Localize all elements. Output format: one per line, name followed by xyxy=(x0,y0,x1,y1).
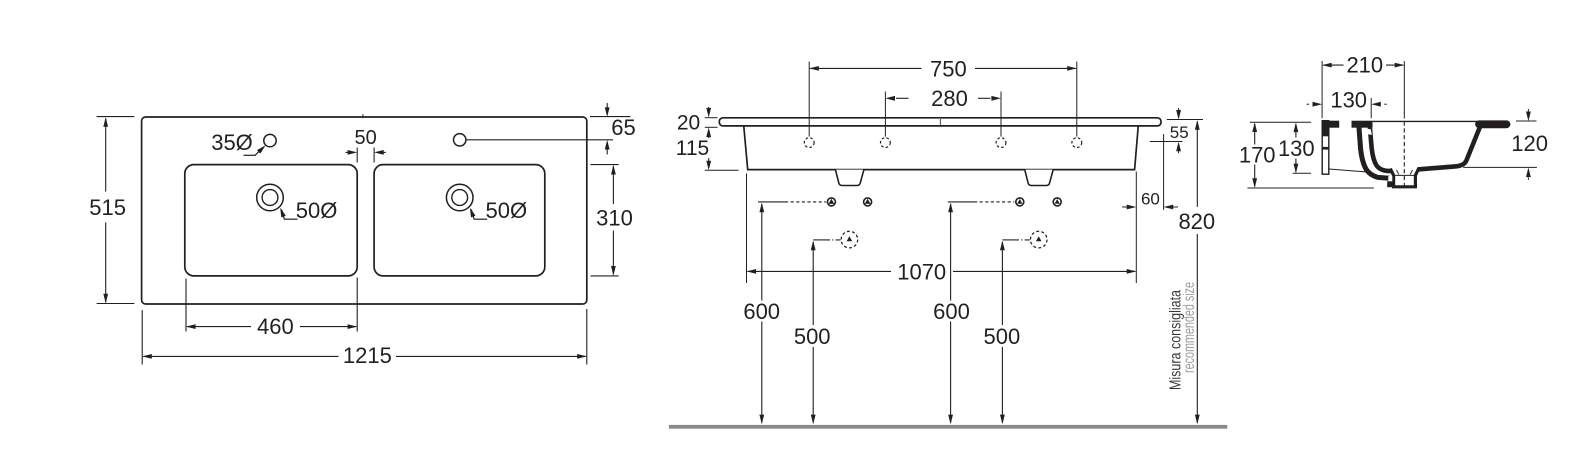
dimension 120: top reference line xyxy=(1516,120,1537,122)
svg-text:55: 55 xyxy=(1170,123,1189,142)
fixing hole symbol A4 xyxy=(1053,198,1061,206)
section: overflow channel outlet (white notch) xyxy=(1388,176,1392,181)
plan view: right overflow hole 50mm outer xyxy=(446,184,473,211)
section: overflow slot (white) in inner wall xyxy=(1367,129,1372,135)
plan view: counter top outline xyxy=(142,117,587,304)
dimension 460: dimension line with arrows xyxy=(187,326,251,328)
svg-text:210: 210 xyxy=(1346,52,1383,77)
plan view: counter centre tick xyxy=(362,114,364,118)
dimension 600 left: line with arrows xyxy=(761,204,763,301)
svg-text:600: 600 xyxy=(743,299,780,324)
svg-text:1215: 1215 xyxy=(343,343,392,368)
dimension 55: top reference line xyxy=(1167,119,1203,121)
svg-text:50Ø: 50Ø xyxy=(486,198,528,223)
svg-text:600: 600 xyxy=(933,299,970,324)
svg-text:35Ø: 35Ø xyxy=(211,130,253,155)
plan view: left basin outline xyxy=(185,165,357,276)
svg-text:1070: 1070 xyxy=(897,259,946,284)
dimension 115: bottom tick xyxy=(705,169,739,171)
svg-text:130: 130 xyxy=(1330,88,1367,113)
front view: faucet hole 3 (dashed) xyxy=(996,138,1006,148)
dimension 600 right: line with arrows xyxy=(950,204,952,301)
svg-text:115: 115 xyxy=(676,137,709,160)
svg-text:500: 500 xyxy=(794,324,831,349)
section: 170 top reference line xyxy=(1250,121,1311,123)
svg-text:170: 170 xyxy=(1239,142,1276,167)
svg-text:515: 515 xyxy=(89,195,126,220)
section: inner basin back wall (thick) xyxy=(1370,124,1393,171)
section: centreline (dashed) xyxy=(1403,122,1405,188)
dimension 210: dimension line with arrows xyxy=(1323,64,1343,66)
plan view: left overflow hole 50mm outer xyxy=(257,184,284,211)
section: outer back wall (thick) xyxy=(1359,123,1390,179)
dimension 820: line with arrows xyxy=(1196,122,1198,207)
front view: slab centre tick xyxy=(939,119,941,125)
dimension 500 right: line with arrows xyxy=(1001,242,1003,325)
fixing hole symbol A2 xyxy=(864,198,872,206)
dimension 515: dimension line with arrows xyxy=(105,119,107,192)
svg-text:500: 500 xyxy=(984,324,1021,349)
svg-text:130: 130 xyxy=(1278,136,1315,161)
plan view: left faucet hole 35mm xyxy=(264,134,276,146)
plan view: left overflow hole 50mm inner xyxy=(262,190,278,206)
dimension 50: arrows xyxy=(346,151,351,153)
svg-text:50Ø: 50Ø xyxy=(296,198,338,223)
plan view: leader line from right faucet hole to 65 dimension xyxy=(466,139,613,141)
svg-text:50: 50 xyxy=(354,127,376,149)
svg-text:460: 460 xyxy=(257,314,294,339)
section: front rim (thick blob) xyxy=(1479,120,1507,128)
fixing holes row left: leader line xyxy=(758,201,785,203)
dimension 50: extension lines xyxy=(356,148,358,163)
dimension 65: arrows xyxy=(606,103,608,108)
section: back wall left bar xyxy=(1322,121,1329,175)
dimension 515: extension ticks xyxy=(97,116,135,118)
dimension 1070: extension lines xyxy=(746,174,748,284)
section: drain outlet box xyxy=(1390,169,1418,187)
dimension 65: top extension line xyxy=(590,116,631,118)
section: 130-left bottom reference line xyxy=(1293,172,1311,174)
dimension 55: arrows xyxy=(1178,108,1180,110)
dimension 1070: dimension line with arrows xyxy=(748,270,892,272)
dimension 130 left: line with arrows xyxy=(1295,124,1297,138)
dimension 130 top: extension line xyxy=(1370,98,1372,118)
dimension 130 top: arrows xyxy=(1307,103,1310,105)
dimension 460: extension lines xyxy=(185,279,187,332)
plan view: right overflow hole 50mm inner xyxy=(452,190,468,206)
dimension 170: line with arrows xyxy=(1254,124,1256,145)
front view: basin body trapezoid xyxy=(744,126,1138,169)
fixing holes row right: leader line xyxy=(948,201,974,203)
dimension 310: dimension line with arrows xyxy=(612,166,614,204)
svg-text:65: 65 xyxy=(611,115,635,140)
dimension 20: arrows xyxy=(708,107,710,110)
dimension 750: extension lines xyxy=(808,62,810,137)
dimension 750: dimension line with arrows xyxy=(810,67,921,69)
fixing hole symbol A1 xyxy=(827,198,835,206)
svg-text:60: 60 xyxy=(1141,190,1160,209)
front view: counter slab xyxy=(719,118,1161,126)
svg-text:310: 310 xyxy=(596,206,633,231)
section: shell mass left of drain xyxy=(1387,181,1394,187)
dimension 115: arrow xyxy=(708,158,710,161)
section: basin bottom and front wall (thick) xyxy=(1418,127,1480,169)
section: thin line under shell xyxy=(1329,169,1367,172)
left 500 leader (dash-dot) xyxy=(813,239,825,241)
svg-text:750: 750 xyxy=(930,57,967,82)
dimension 310: extension lines xyxy=(591,164,619,166)
front view: left drain boss xyxy=(835,170,864,186)
dimension 1215: dimension line with arrows xyxy=(143,355,338,357)
dimension 280: extension lines xyxy=(884,92,886,137)
dimension 20: extension ticks xyxy=(705,117,718,119)
dimension 120: arrows xyxy=(1527,109,1529,111)
dimension 280: arrows xyxy=(896,97,909,99)
left drain centre (dashed circle with marker) xyxy=(841,231,858,248)
dimension 60: arrows xyxy=(1122,206,1127,208)
plan view: right faucet hole 35mm xyxy=(454,134,466,146)
dimension 60: extension line xyxy=(1163,134,1165,210)
front view: faucet hole 4 (dashed) xyxy=(1072,138,1082,148)
dimension 1215: extension lines xyxy=(141,310,143,365)
front view: right drain boss xyxy=(1025,170,1054,186)
svg-text:recommended size: recommended size xyxy=(1181,282,1198,373)
section: deck thick bar with faucet hole gap xyxy=(1322,121,1339,128)
dimension 55: lower reference line xyxy=(1150,141,1183,143)
dimension 210: extension lines xyxy=(1321,61,1323,118)
fixing hole symbol A3 xyxy=(1016,198,1024,206)
svg-text:20: 20 xyxy=(677,112,700,135)
svg-text:120: 120 xyxy=(1511,131,1548,156)
plan view: right basin outline xyxy=(374,165,545,276)
front view: faucet hole 2 (dashed) xyxy=(881,138,891,148)
front view: faucet hole 1 (dashed) xyxy=(804,138,814,148)
svg-text:280: 280 xyxy=(931,86,968,111)
floor line (grey) xyxy=(669,425,1227,429)
section: thin top surface line xyxy=(1373,120,1479,122)
right 500 leader (dash-dot) xyxy=(1002,239,1014,241)
dimension 120: bottom reference line xyxy=(1463,166,1537,168)
section: 170 bottom reference line xyxy=(1247,187,1374,189)
dimension 500 left: line with arrows xyxy=(812,242,814,325)
right drain centre (dashed circle with marker) xyxy=(1030,231,1047,248)
svg-text:820: 820 xyxy=(1178,209,1215,234)
